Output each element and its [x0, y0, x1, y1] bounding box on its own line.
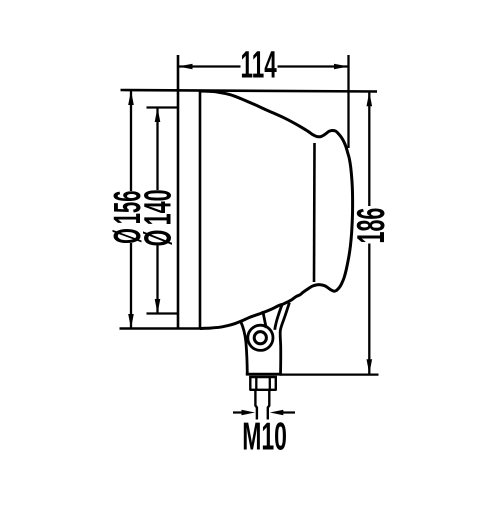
svg-text:186: 186	[349, 208, 392, 244]
svg-text:Ø 140: Ø 140	[136, 189, 179, 246]
svg-text:114: 114	[241, 43, 278, 86]
svg-text:M10: M10	[242, 414, 287, 458]
